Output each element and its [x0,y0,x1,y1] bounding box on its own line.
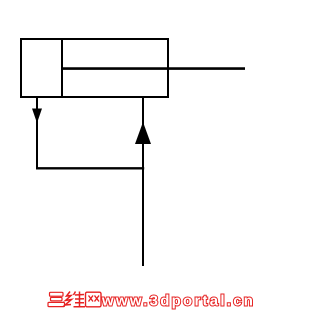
glyph 网 [86,292,102,307]
svg-text:www.3dportal.cn: www.3dportal.cn [101,293,255,310]
arrow (downward flow, left wire) [32,109,42,124]
wire (right port, vertical) [142,98,144,266]
glyph 三 [48,292,65,306]
piston rod [62,67,245,70]
glyph 维 [65,292,85,307]
piston [61,38,63,98]
wire (left port, vertical) [36,98,38,169]
wire (bottom horizontal) [36,167,144,169]
cylinder body (rectangle) [21,39,168,97]
arrow (upward flow, right wire) [135,122,151,144]
watermark text 三维网 (drawn glyphs) [48,292,101,307]
